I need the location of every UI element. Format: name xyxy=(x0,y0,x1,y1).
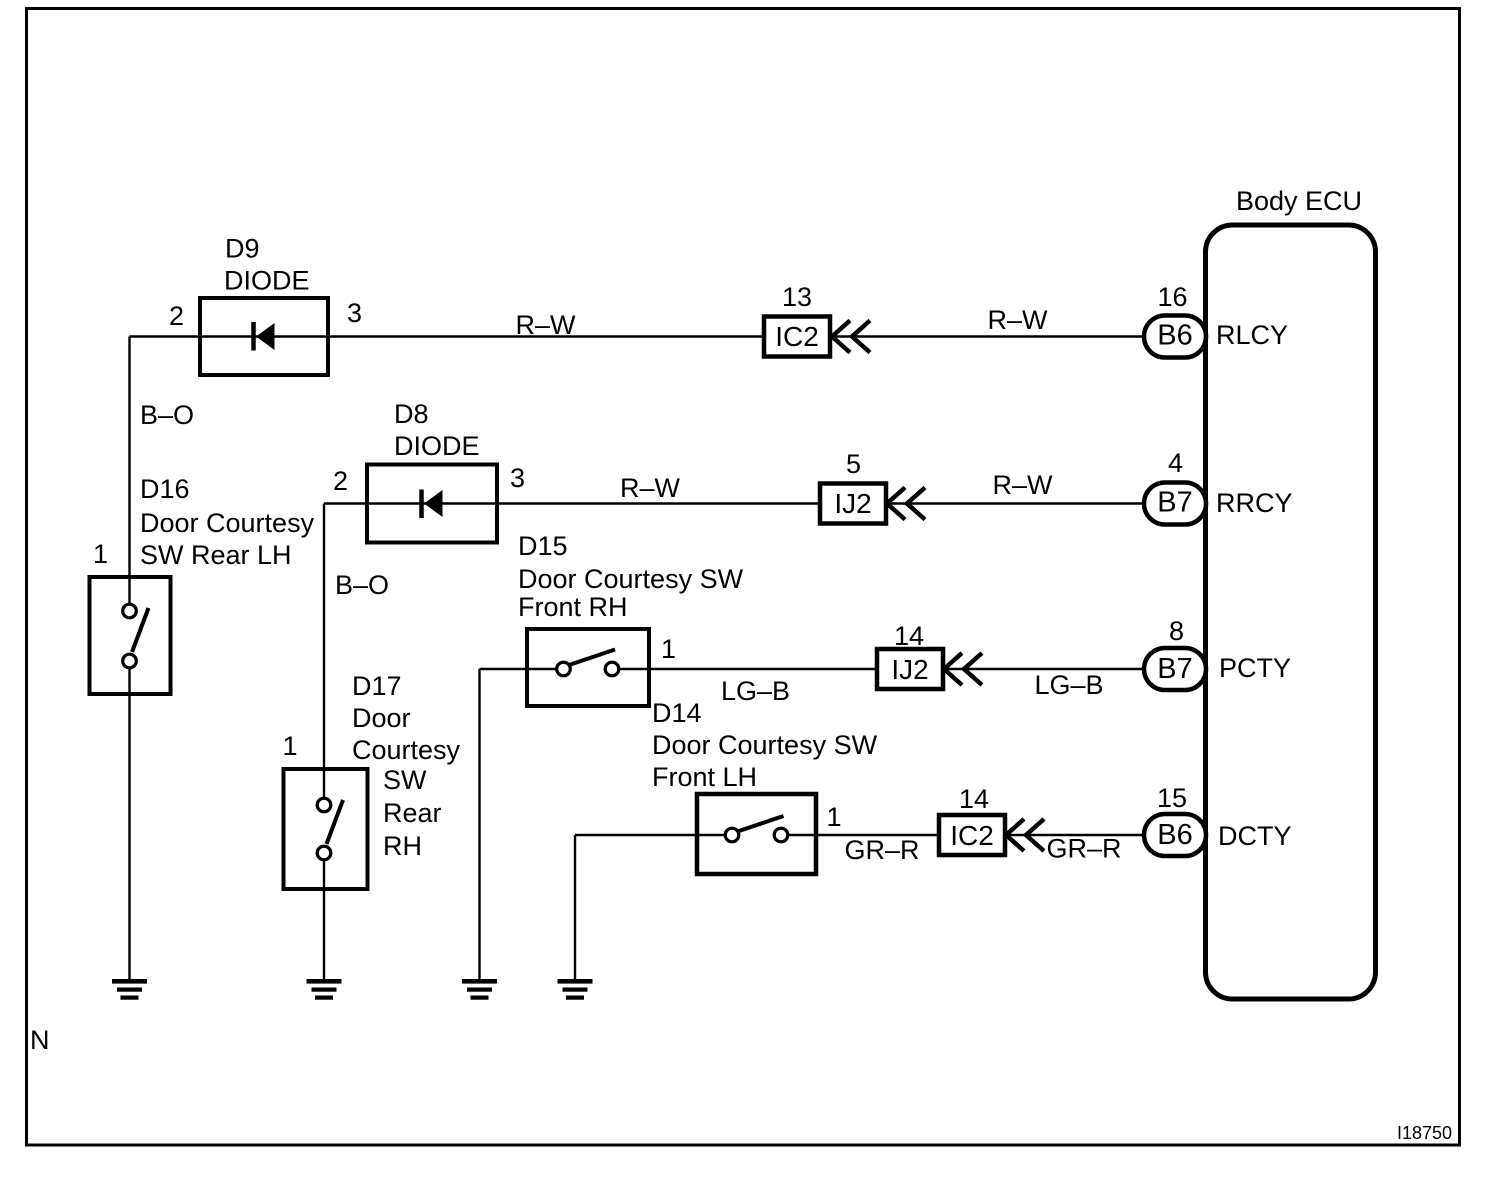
svg-text:DIODE: DIODE xyxy=(394,431,480,461)
svg-text:14: 14 xyxy=(894,621,924,651)
svg-text:13: 13 xyxy=(782,282,812,312)
svg-text:IC2: IC2 xyxy=(775,321,819,352)
svg-text:D14: D14 xyxy=(652,698,702,728)
svg-text:RLCY: RLCY xyxy=(1216,320,1288,350)
svg-text:R–W: R–W xyxy=(516,310,577,340)
svg-text:D9: D9 xyxy=(225,234,260,264)
svg-text:RH: RH xyxy=(383,831,422,861)
ECU pin B6-15 DCTY xyxy=(1144,783,1292,856)
ECU pin B6-16 RLCY xyxy=(1144,282,1288,358)
svg-text:B–O: B–O xyxy=(335,570,389,600)
svg-text:R–W: R–W xyxy=(620,473,681,503)
svg-text:B–O: B–O xyxy=(140,400,194,430)
svg-text:4: 4 xyxy=(1168,448,1183,478)
svg-text:B6: B6 xyxy=(1157,819,1192,851)
svg-text:B7: B7 xyxy=(1157,487,1192,519)
svg-text:DIODE: DIODE xyxy=(224,266,310,296)
wire D17 to ground xyxy=(323,860,325,982)
switch D17 Door Courtesy SW Rear RH xyxy=(282,671,460,889)
svg-text:B6: B6 xyxy=(1157,320,1192,352)
chevron arrows row3 xyxy=(944,653,982,685)
svg-text:GR–R: GR–R xyxy=(844,835,919,865)
svg-text:Door Courtesy SW: Door Courtesy SW xyxy=(518,564,744,594)
svg-text:D16: D16 xyxy=(140,474,190,504)
switch D15 Door Courtesy SW Front RH xyxy=(518,531,744,706)
svg-text:Front LH: Front LH xyxy=(652,762,757,792)
chevron arrows row4 xyxy=(1006,819,1044,851)
ECU box: Body ECU xyxy=(1206,186,1376,999)
svg-text:D15: D15 xyxy=(518,531,568,561)
diode D8 xyxy=(333,399,525,543)
svg-text:2: 2 xyxy=(333,466,348,496)
svg-text:LG–B: LG–B xyxy=(721,676,790,706)
svg-text:B7: B7 xyxy=(1157,653,1192,685)
chevron arrows row2 xyxy=(887,488,925,520)
junction connector IJ2 row3, pin 14 xyxy=(877,621,943,689)
svg-text:14: 14 xyxy=(959,784,989,814)
chevron arrows row1 xyxy=(832,321,870,353)
svg-text:D17: D17 xyxy=(352,671,402,701)
svg-text:Front RH: Front RH xyxy=(518,592,628,622)
ECU pin B7-4 RRCY xyxy=(1144,448,1293,525)
svg-text:SW: SW xyxy=(383,765,427,795)
svg-text:Door: Door xyxy=(352,703,411,733)
svg-text:PCTY: PCTY xyxy=(1219,653,1291,683)
svg-text:D8: D8 xyxy=(394,399,429,429)
svg-text:3: 3 xyxy=(347,298,362,328)
wire D15 drop to ground xyxy=(478,669,480,981)
wire row2 left stub xyxy=(324,502,821,504)
svg-text:8: 8 xyxy=(1169,616,1184,646)
svg-text:Rear: Rear xyxy=(383,798,442,828)
switch D14 Door Courtesy SW Front LH xyxy=(652,698,878,874)
svg-text:DCTY: DCTY xyxy=(1218,821,1292,851)
svg-text:R–W: R–W xyxy=(988,305,1049,335)
wire B-O vertical from D8 pin2 to D17 xyxy=(324,504,389,799)
svg-text:IC2: IC2 xyxy=(950,820,994,851)
wire D14 drop to ground xyxy=(574,835,576,981)
svg-text:5: 5 xyxy=(846,449,861,479)
svg-text:Door Courtesy SW: Door Courtesy SW xyxy=(652,730,878,760)
wire row4 left stub into D14 xyxy=(575,834,726,836)
wire row3 D15 to IJ2, label LG-B xyxy=(619,669,879,706)
svg-text:2: 2 xyxy=(169,301,184,331)
wire row2 IJ2 to B7, label R-W xyxy=(620,470,1146,504)
svg-text:16: 16 xyxy=(1157,282,1187,312)
diode D9 xyxy=(169,234,362,376)
svg-text:N: N xyxy=(30,1025,50,1055)
svg-text:15: 15 xyxy=(1157,783,1187,813)
svg-text:IJ2: IJ2 xyxy=(834,488,871,519)
wire row1 left stub xyxy=(130,335,766,337)
svg-text:1: 1 xyxy=(282,731,297,761)
svg-text:Courtesy: Courtesy xyxy=(352,735,461,765)
svg-text:IJ2: IJ2 xyxy=(891,654,928,685)
ground under D16 xyxy=(112,979,147,1000)
svg-text:GR–R: GR–R xyxy=(1046,834,1121,864)
ground under D14 wire xyxy=(558,979,593,1000)
svg-text:LG–B: LG–B xyxy=(1034,670,1103,700)
junction connector IC2 row4, pin 14 xyxy=(939,784,1005,855)
ECU pin B7-8 PCTY xyxy=(1144,616,1291,690)
svg-text:1: 1 xyxy=(661,634,676,664)
wire row1 IC2 to B6, label R-W xyxy=(516,305,1147,340)
svg-text:RRCY: RRCY xyxy=(1216,488,1293,518)
wire D16 to ground xyxy=(128,668,130,982)
ground under D17 xyxy=(307,979,342,1000)
switch D16 Door Courtesy SW Rear LH xyxy=(90,474,315,694)
svg-text:Door Courtesy: Door Courtesy xyxy=(140,508,315,538)
svg-text:1: 1 xyxy=(93,539,108,569)
wire row4 D14 to IC2, label GR-R xyxy=(788,835,941,865)
svg-text:I18750: I18750 xyxy=(1397,1123,1452,1143)
wire row3 left stub into D15 xyxy=(480,668,558,670)
wire row3 arrows to B7, label LG-B xyxy=(943,669,1146,700)
svg-text:Body ECU: Body ECU xyxy=(1236,186,1362,216)
junction connector IJ2 row2, pin 5 xyxy=(820,449,886,524)
svg-text:1: 1 xyxy=(826,802,841,832)
svg-text:R–W: R–W xyxy=(993,470,1054,500)
junction connector IC2 row1, pin 13 xyxy=(764,282,830,357)
ground under D15 wire xyxy=(462,979,497,1000)
wire row4 IC2 to B6, label GR-R xyxy=(1004,834,1146,864)
svg-text:3: 3 xyxy=(510,463,525,493)
svg-text:SW Rear LH: SW Rear LH xyxy=(140,540,292,570)
wire B-O vertical from D9 pin2 to D16 xyxy=(130,337,195,605)
